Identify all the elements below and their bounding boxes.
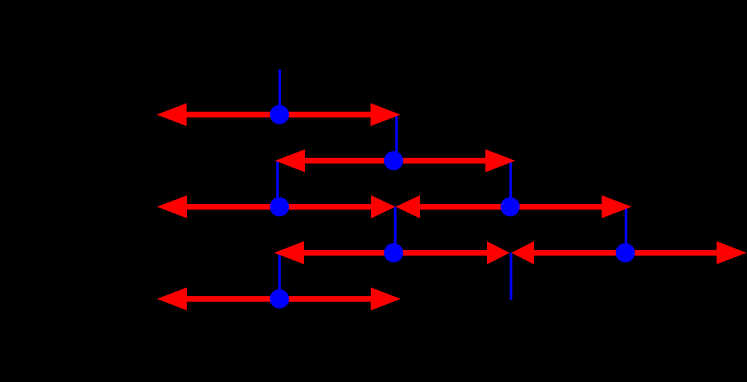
stem T4 (I3a right endpoint down to I4a midpoint)	[394, 207, 397, 253]
stem T0 (free upper endpoint above interval I1 midpoint)	[278, 69, 281, 114]
interval arrow I3a (row 3 left, double-headed)	[157, 195, 395, 218]
midpoint dot P5 (interval I4a)	[384, 243, 403, 262]
interval arrow I3b (row 3 right, double-headed)	[396, 195, 632, 218]
midpoint dot P7 (interval I5)	[270, 289, 289, 308]
interval arrow I4a (row 4 left, double-headed)	[274, 241, 510, 264]
stem T6 (I4a left endpoint down to I5 midpoint)	[278, 253, 281, 299]
midpoint dot P2 (interval I2)	[384, 151, 403, 170]
midpoint dot P6 (interval I4b)	[616, 243, 635, 262]
midpoint dot P1 (interval I1)	[270, 105, 289, 124]
midpoint dot P4 (interval I3b)	[501, 197, 520, 216]
interval arrow I5 (row 5, double-headed)	[157, 287, 401, 310]
interval arrow I1 (row 1, double-headed)	[157, 103, 401, 126]
interval arrow I4b (row 4 right, double-headed, runs off right edge)	[511, 241, 746, 264]
stem T5 (I3b right endpoint down to I4b midpoint)	[625, 207, 628, 253]
stem T3 (I2 right endpoint down to I3b midpoint)	[509, 161, 512, 207]
stem T2 (I2 left endpoint down to I3a midpoint)	[276, 161, 279, 207]
stem T7 (hanging free endpoint below I4 junction)	[510, 253, 513, 300]
stem T1 (I1 right endpoint down to I2 midpoint)	[395, 115, 398, 161]
midpoint dot P3 (interval I3a)	[270, 197, 289, 216]
interval arrow I2 (row 2, double-headed)	[275, 149, 515, 172]
